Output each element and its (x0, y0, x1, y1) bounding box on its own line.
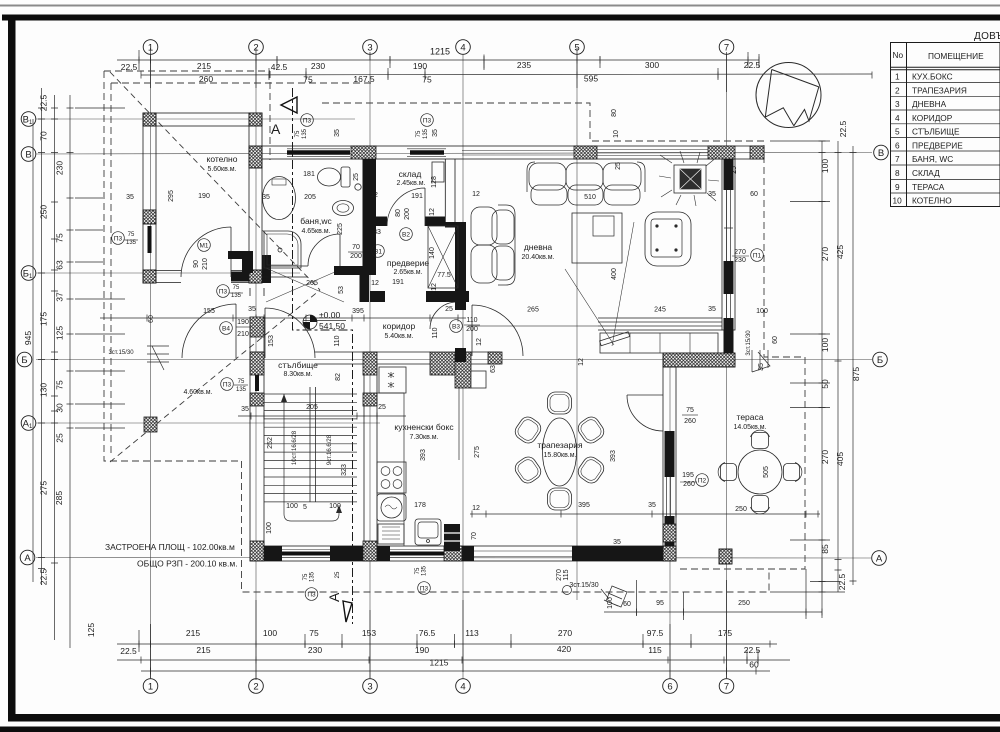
roof hip dashed diagonal 2 (110, 290, 320, 462)
stairs door arc into corridor (265, 308, 315, 358)
svg-text:200: 200 (404, 208, 411, 220)
svg-text:В: В (25, 150, 31, 161)
svg-text:35: 35 (648, 502, 656, 509)
left col texts (rotated) (23, 94, 96, 637)
kitchen east boundary line (458, 375, 460, 460)
svg-text:100: 100 (266, 522, 273, 534)
svg-text:25: 25 (353, 173, 360, 181)
bathroom east / sklad west wall (363, 159, 377, 275)
svg-text:22.5: 22.5 (39, 94, 49, 111)
svg-text:4: 4 (895, 113, 900, 123)
left axis circles (21, 112, 36, 127)
svg-text:25: 25 (378, 404, 386, 411)
svg-text:200: 200 (350, 253, 362, 260)
svg-text:75: 75 (55, 233, 65, 243)
sklad south wall with door (376, 217, 466, 228)
svg-text:П3: П3 (114, 236, 123, 243)
svg-text:270: 270 (820, 247, 830, 261)
kotelno right wall (249, 113, 262, 283)
svg-text:205: 205 (306, 404, 318, 411)
free column at terrace corner (719, 549, 732, 564)
svg-text:трапезария: трапезария (537, 440, 583, 450)
svg-text:стълбище: стълбище (278, 360, 318, 370)
svg-text:ДНЕВНА: ДНЕВНА (912, 99, 947, 109)
svg-text:190: 190 (413, 61, 427, 71)
svg-text:80: 80 (395, 209, 402, 217)
svg-text:252: 252 (267, 437, 274, 449)
svg-text:393: 393 (420, 449, 427, 461)
stairwell north wall (corridor south) (250, 352, 430, 364)
svg-text:178: 178 (414, 502, 426, 509)
svg-text:4: 4 (460, 682, 465, 693)
svg-text:295: 295 (168, 190, 175, 202)
living room south window band to terrace (598, 318, 722, 330)
svg-text:250: 250 (39, 205, 49, 219)
svg-text:135: 135 (231, 293, 242, 299)
svg-text:37: 37 (55, 292, 65, 302)
svg-text:35: 35 (708, 306, 716, 313)
svg-text:420: 420 (557, 644, 571, 654)
svg-text:205: 205 (306, 280, 318, 287)
kitchen stove (377, 462, 406, 493)
svg-text:135: 135 (302, 128, 308, 139)
svg-text:215: 215 (186, 628, 200, 638)
svg-text:1215: 1215 (430, 658, 449, 668)
roof overhang dashed outline (kotelno annex) (104, 71, 805, 624)
svg-text:15.80кв.м.: 15.80кв.м. (543, 452, 576, 459)
porch column at axis 1/A1 (144, 417, 157, 432)
svg-text:82: 82 (335, 373, 342, 381)
svg-text:95: 95 (656, 600, 664, 607)
svg-text:9ст.16.6/28: 9ст.16.6/28 (327, 434, 333, 465)
bottom axis circles 1,2,3,4,6,7 (143, 679, 158, 694)
exterior steps east (752, 350, 770, 372)
svg-text:ПРЕДВЕРИЕ: ПРЕДВЕРИЕ (912, 140, 963, 150)
dimension lines right (821, 141, 823, 592)
svg-text:ТРАПЕЗАРИЯ: ТРАПЕЗАРИЯ (912, 85, 967, 95)
svg-text:50: 50 (820, 379, 830, 389)
svg-text:А: А (876, 554, 883, 565)
svg-text:215: 215 (197, 61, 211, 71)
svg-text:153: 153 (362, 628, 376, 638)
svg-text:В1: В1 (374, 249, 382, 256)
svg-text:12: 12 (371, 280, 379, 287)
svg-text:230: 230 (308, 645, 322, 655)
entry door B4 leaf and arc (182, 304, 236, 358)
svg-text:63: 63 (490, 365, 497, 373)
washbasin (333, 201, 354, 216)
svg-text:395: 395 (578, 502, 590, 509)
svg-text:1: 1 (148, 682, 153, 693)
svg-text:80: 80 (611, 109, 618, 117)
svg-text:БАНЯ, WC: БАНЯ, WC (912, 154, 953, 164)
corridor door arc to kitchen area (430, 302, 457, 329)
svg-text:76.5: 76.5 (419, 628, 436, 638)
svg-text:12: 12 (429, 208, 436, 216)
roof overhang dashed (south side) (242, 461, 770, 592)
svg-text:П3: П3 (420, 586, 429, 593)
north wall (axis B) outline (262, 146, 764, 159)
predverie east / living west wall (445, 159, 455, 222)
dimension texts (23, 47, 861, 670)
svg-text:22.5: 22.5 (744, 645, 761, 655)
dimension lines top (33, 48, 872, 680)
svg-text:97.5: 97.5 (647, 628, 664, 638)
svg-text:2.45кв.м.: 2.45кв.м. (396, 180, 425, 187)
svg-text:7: 7 (724, 682, 729, 693)
svg-text:205: 205 (304, 194, 316, 201)
svg-text:No: No (893, 50, 904, 60)
svg-text:котелно: котелно (207, 154, 238, 164)
svg-text:25: 25 (615, 162, 622, 170)
kitchen counter line (377, 393, 404, 546)
svg-text:М1: М1 (199, 243, 208, 250)
svg-text:60: 60 (749, 660, 759, 670)
svg-text:135: 135 (310, 571, 316, 582)
sofa large (3-seat) (527, 162, 645, 205)
predverie closet with X (428, 226, 458, 288)
kitchen west wall (364, 364, 377, 546)
bathtub (263, 177, 296, 220)
svg-text:3: 3 (367, 43, 372, 54)
north wall hatched column blocks (351, 146, 764, 159)
svg-text:63: 63 (55, 260, 65, 270)
svg-text:60: 60 (148, 315, 155, 323)
svg-text:100: 100 (756, 308, 768, 315)
svg-text:53: 53 (338, 286, 345, 294)
corridor opening X mark (266, 268, 344, 302)
svg-text:предверие: предверие (387, 258, 429, 268)
svg-text:7: 7 (724, 43, 729, 54)
svg-text:230: 230 (55, 161, 65, 175)
svg-text:А: А (271, 121, 281, 137)
svg-text:250: 250 (738, 600, 750, 607)
svg-text:113: 113 (465, 628, 479, 638)
svg-text:270: 270 (820, 450, 830, 464)
svg-text:75: 75 (295, 130, 301, 137)
svg-text:125: 125 (55, 326, 65, 340)
svg-text:33: 33 (373, 229, 381, 236)
interior dimension texts (108, 109, 779, 609)
kotelno hatched column blocks (143, 113, 262, 283)
section marker A top (271, 97, 297, 137)
svg-text:260: 260 (199, 74, 213, 84)
svg-text:4.60кв.м.: 4.60кв.м. (183, 389, 212, 396)
svg-text:200: 200 (466, 326, 478, 333)
svg-text:75: 75 (422, 75, 432, 85)
stairwell west window (255, 369, 259, 391)
kitchen washing machine (377, 494, 406, 521)
svg-text:10: 10 (893, 196, 903, 206)
svg-text:70: 70 (471, 532, 478, 540)
svg-text:60: 60 (772, 336, 779, 344)
svg-text:323: 323 (341, 464, 348, 476)
svg-text:П3: П3 (219, 289, 228, 296)
svg-text:14.05кв.м.: 14.05кв.м. (733, 424, 766, 431)
TV set diagonal (600, 332, 630, 346)
svg-text:175: 175 (39, 312, 49, 326)
svg-text:100: 100 (286, 503, 298, 510)
svg-text:393: 393 (610, 450, 617, 462)
svg-text:135: 135 (126, 240, 137, 246)
svg-text:235: 235 (517, 60, 531, 70)
bathroom south wall (262, 266, 308, 277)
svg-text:склад: склад (399, 169, 422, 179)
svg-text:75: 75 (309, 628, 319, 638)
svg-text:75: 75 (55, 380, 65, 390)
svg-text:35: 35 (126, 194, 134, 201)
fireplace (659, 151, 719, 206)
svg-text:12: 12 (472, 505, 480, 512)
roof hip dashed diagonal 1 (110, 72, 320, 290)
svg-text:425: 425 (835, 245, 845, 259)
svg-text:ЗАСТРОЕНА ПЛОЩ - 102.00кв.м: ЗАСТРОЕНА ПЛОЩ - 102.00кв.м (105, 542, 235, 552)
svg-text:75: 75 (233, 285, 240, 291)
north arrow symbol (756, 63, 821, 128)
svg-text:77.5: 77.5 (437, 272, 451, 279)
svg-text:153: 153 (268, 335, 275, 347)
svg-text:175: 175 (718, 628, 732, 638)
svg-text:70: 70 (39, 131, 49, 141)
svg-text:тераса: тераса (737, 412, 764, 422)
svg-text:В2: В2 (402, 232, 410, 239)
svg-text:128: 128 (431, 176, 438, 188)
svg-text:22.5: 22.5 (838, 120, 848, 137)
svg-text:кухненски бокс: кухненски бокс (394, 422, 454, 432)
svg-text:35: 35 (262, 194, 270, 201)
right col texts (rotated) (820, 120, 861, 590)
svg-text:155: 155 (203, 308, 215, 315)
stairs (264, 387, 357, 521)
svg-text:135: 135 (236, 387, 247, 393)
svg-text:П3: П3 (423, 118, 432, 125)
svg-text:75: 75 (238, 379, 245, 385)
svg-text:405: 405 (835, 452, 845, 466)
dimension lines bottom (117, 643, 777, 645)
svg-text:12: 12 (472, 191, 480, 198)
interior dim line below A (95/250) (604, 611, 822, 613)
svg-text:300: 300 (645, 60, 659, 70)
svg-text:195: 195 (682, 472, 694, 479)
svg-text:СТЪЛБИЩЕ: СТЪЛБИЩЕ (912, 127, 960, 137)
small white column at kitchen/dining (471, 371, 486, 388)
north wall window glass lines (287, 150, 444, 155)
kitchen sink square (415, 519, 441, 545)
vent circle (355, 184, 361, 190)
svg-text:П1: П1 (753, 253, 762, 260)
svg-text:60: 60 (750, 191, 758, 198)
svg-text:4.65кв.м.: 4.65кв.м. (301, 228, 330, 235)
svg-text:191: 191 (411, 193, 423, 200)
svg-text:3ст.15/30: 3ст.15/30 (569, 582, 598, 589)
extension lines bottom (151, 580, 727, 680)
svg-text:595: 595 (584, 74, 598, 84)
svg-text:3: 3 (895, 99, 900, 109)
svg-text:75: 75 (303, 573, 309, 580)
svg-text:135: 135 (423, 128, 429, 139)
kotelno bottom wall with door M1 opening (143, 271, 262, 283)
svg-text:5.60кв.м.: 5.60кв.м. (207, 166, 236, 173)
svg-text:275: 275 (474, 446, 481, 458)
svg-text:275: 275 (39, 481, 49, 495)
svg-text:181: 181 (303, 171, 315, 178)
svg-text:2: 2 (253, 682, 258, 693)
svg-text:3ст.15/30: 3ст.15/30 (746, 330, 752, 356)
svg-text:2: 2 (895, 85, 900, 95)
svg-text:100: 100 (607, 597, 614, 609)
svg-text:190: 190 (198, 193, 210, 200)
svg-text:В: В (878, 148, 884, 159)
svg-text:П3: П3 (303, 118, 312, 125)
svg-text:100: 100 (820, 338, 830, 352)
svg-text:25: 25 (445, 306, 453, 313)
interior dim line corridor (100, 317, 466, 319)
svg-text:8: 8 (895, 168, 900, 178)
svg-text:167.5: 167.5 (353, 74, 375, 84)
svg-text:10ст 16.6/28: 10ст 16.6/28 (292, 430, 298, 465)
svg-text:35: 35 (248, 306, 256, 313)
svg-text:75: 75 (128, 232, 135, 238)
svg-text:115: 115 (648, 645, 662, 655)
armchair (645, 212, 691, 266)
svg-text:22.5: 22.5 (837, 573, 847, 590)
svg-text:22.5: 22.5 (744, 60, 761, 70)
svg-text:250: 250 (735, 506, 747, 513)
interior dim line stairs (238, 415, 406, 417)
svg-text:270: 270 (734, 249, 746, 256)
svg-text:85: 85 (820, 544, 830, 554)
svg-text:265: 265 (527, 307, 539, 314)
svg-text:400: 400 (611, 268, 618, 280)
dishwasher (378, 524, 404, 544)
svg-text:260: 260 (684, 418, 696, 425)
svg-text:20.40кв.м.: 20.40кв.м. (521, 254, 554, 261)
svg-text:6: 6 (667, 682, 672, 693)
svg-text:12: 12 (431, 283, 438, 291)
svg-text:КОТЕЛНО: КОТЕЛНО (912, 196, 952, 206)
svg-text:8.30кв.м.: 8.30кв.м. (283, 371, 312, 378)
svg-text:100: 100 (820, 159, 830, 173)
svg-text:30: 30 (55, 403, 65, 413)
svg-text:5: 5 (895, 127, 900, 137)
svg-text:Б: Б (21, 355, 27, 366)
svg-text:510: 510 (584, 194, 596, 201)
svg-text:10: 10 (613, 130, 620, 138)
svg-text:60: 60 (623, 601, 631, 608)
svg-text:12: 12 (370, 192, 378, 199)
svg-text:100: 100 (263, 628, 277, 638)
coffee table (572, 213, 622, 263)
kotelno left wall (143, 113, 156, 283)
svg-text:25: 25 (335, 571, 341, 578)
black kitchen unit (444, 524, 460, 551)
svg-text:190: 190 (415, 645, 429, 655)
svg-text:В3: В3 (452, 324, 460, 331)
section marker A bottom (326, 592, 352, 622)
wall block on axis B (terrace north) (663, 353, 735, 367)
section cut line A-A (293, 88, 353, 624)
svg-text:35: 35 (334, 129, 341, 137)
svg-text:6: 6 (895, 140, 900, 150)
svg-text:75: 75 (415, 567, 421, 574)
svg-text:25: 25 (731, 166, 738, 174)
svg-text:191: 191 (392, 279, 404, 286)
svg-text:1: 1 (895, 72, 900, 82)
svg-text:125: 125 (86, 623, 96, 637)
svg-text:7.30кв.м.: 7.30кв.м. (409, 434, 438, 441)
svg-text:100: 100 (329, 503, 341, 510)
svg-text:270: 270 (556, 569, 563, 581)
svg-text:22.5: 22.5 (120, 646, 137, 656)
svg-text:135: 135 (422, 565, 428, 576)
svg-text:35: 35 (432, 129, 439, 137)
svg-text:285: 285 (54, 491, 64, 505)
dining NW wall stub (466, 352, 500, 364)
svg-text:245: 245 (654, 307, 666, 314)
axis bubbles (17, 40, 888, 694)
svg-text:дневна: дневна (524, 242, 553, 252)
svg-text:9: 9 (895, 182, 900, 192)
svg-text:22.5: 22.5 (39, 568, 49, 585)
svg-text:945: 945 (23, 331, 33, 345)
svg-text:Б: Б (877, 355, 883, 366)
svg-text:75: 75 (686, 407, 694, 414)
kitchen fridge (379, 367, 406, 393)
svg-text:ОБЩО РЗП - 200.10 кв.м.: ОБЩО РЗП - 200.10 кв.м. (137, 559, 238, 569)
svg-text:ТЕРАСА: ТЕРАСА (912, 182, 945, 192)
sklad shelf (432, 162, 444, 182)
svg-text:395: 395 (352, 308, 364, 315)
west wall of stairwell + entry (250, 288, 264, 561)
svg-text:875: 875 (851, 367, 861, 381)
exterior steps west (entry) (147, 346, 169, 370)
room labels and small texts (105, 109, 779, 609)
svg-text:П3: П3 (223, 382, 232, 389)
svg-text:110: 110 (466, 317, 477, 324)
room legend table (891, 31, 1000, 207)
svg-text:230: 230 (734, 257, 746, 264)
svg-text:225: 225 (337, 223, 344, 235)
svg-text:110: 110 (432, 327, 439, 338)
svg-text:12: 12 (578, 358, 585, 366)
svg-text:3: 3 (367, 682, 372, 693)
interior dim line dining south (470, 513, 820, 515)
svg-text:505: 505 (763, 466, 770, 478)
east wall of living room (722, 159, 735, 330)
svg-text:1215: 1215 (430, 47, 450, 57)
door B3 leaf and arc (472, 305, 523, 356)
svg-text:130: 130 (39, 383, 49, 397)
svg-text:230: 230 (311, 61, 325, 71)
svg-text:3ст.15/30: 3ст.15/30 (108, 350, 134, 356)
window/door markers (112, 114, 764, 601)
svg-text:7: 7 (895, 154, 900, 164)
svg-text:140: 140 (429, 247, 436, 259)
svg-text:90: 90 (193, 260, 200, 268)
svg-text:5.40кв.м.: 5.40кв.м. (384, 333, 413, 340)
bathroom door leaf and arc (308, 234, 340, 266)
south wall (axis A) (250, 546, 676, 561)
svg-text:35: 35 (241, 406, 249, 413)
roof overhang dashed (main house) (322, 103, 805, 569)
svg-text:215: 215 (196, 645, 210, 655)
sklad door leaf and arc (387, 188, 425, 226)
svg-text:А: А (24, 553, 31, 564)
svg-text:КУХ.БОКС: КУХ.БОКС (912, 72, 953, 82)
svg-text:А: А (326, 592, 342, 602)
svg-text:42.5: 42.5 (271, 62, 288, 72)
terrace chairs (718, 430, 802, 514)
